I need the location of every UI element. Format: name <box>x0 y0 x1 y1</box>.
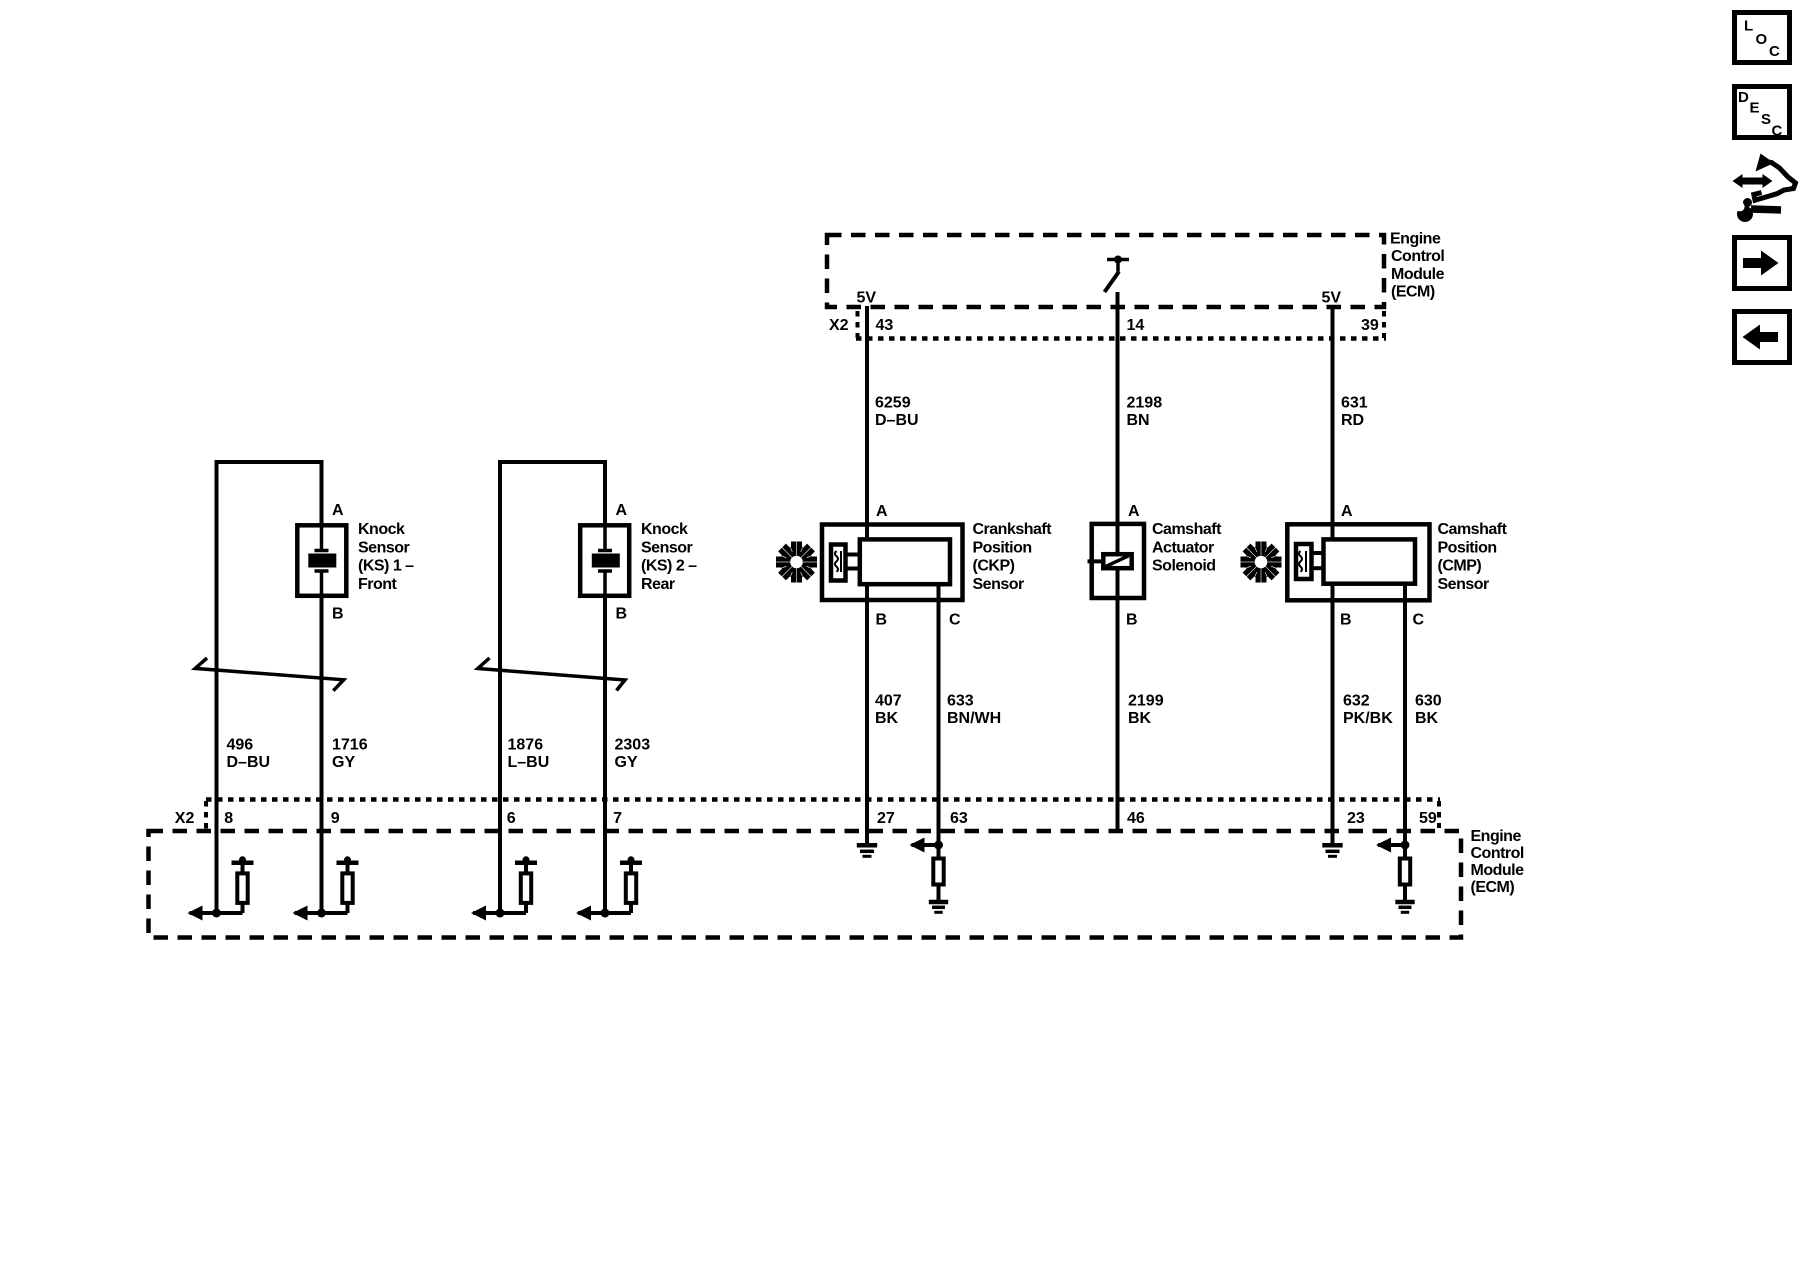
wire A into CKP <box>865 524 869 541</box>
wire 2199 BK <box>1116 568 1120 833</box>
svg-text:A: A <box>1128 503 1140 520</box>
gear symbol CMP <box>1241 542 1282 583</box>
solenoid wire through box <box>1116 523 1120 554</box>
CKP element connector lines <box>846 555 860 569</box>
svg-text:1876L–BU: 1876L–BU <box>508 737 550 772</box>
svg-text:A: A <box>332 502 344 519</box>
wire 630 BK <box>1403 584 1407 845</box>
svg-text:14: 14 <box>1127 317 1145 334</box>
wire 631 RD <box>1331 306 1335 541</box>
resistor-ground network pin 59 <box>1376 838 1415 913</box>
svg-text:C: C <box>1413 612 1425 629</box>
svg-text:B: B <box>876 612 888 629</box>
svg-text:L: L <box>1744 18 1753 35</box>
pullup network pin 9 <box>293 856 359 920</box>
svg-text:5V: 5V <box>857 290 877 307</box>
Engine Control Module (ECM) top dashed box <box>827 235 1384 307</box>
svg-text:D: D <box>1738 89 1749 106</box>
knock sensor KS1 box <box>297 525 346 596</box>
svg-text:E: E <box>1750 100 1760 117</box>
wire loop knock sensor 2 <box>500 462 605 913</box>
CMP sensing element box <box>1296 544 1312 579</box>
wire 633 BN/WH <box>937 584 941 845</box>
svg-text:A: A <box>1341 503 1353 520</box>
nav icon right-arrow box <box>1735 238 1790 289</box>
svg-text:O: O <box>1756 31 1768 48</box>
nav icon wrench-arrows symbol <box>1733 154 1796 223</box>
wire 407 BK <box>865 584 869 844</box>
wire 2198 BN <box>1116 292 1120 554</box>
svg-text:C: C <box>949 612 961 629</box>
svg-text:B: B <box>332 606 344 623</box>
CMP element connector lines <box>1311 553 1325 568</box>
svg-text:C: C <box>1772 123 1783 140</box>
wire 632 PK/BK <box>1331 584 1335 844</box>
crankshaft position sensor outer box <box>822 525 963 601</box>
ground pin 23 <box>1322 845 1342 856</box>
svg-text:630BK: 630BK <box>1415 693 1442 728</box>
svg-text:5V: 5V <box>1322 290 1342 307</box>
ground pin 27 <box>857 845 877 856</box>
svg-text:9: 9 <box>331 810 340 827</box>
knock sensor KS1 element <box>308 523 336 598</box>
CMP inner rectangle <box>1324 539 1416 583</box>
svg-text:39: 39 <box>1361 317 1379 334</box>
wire 6259 D-BU <box>865 306 869 541</box>
resistor-ground network pin 63 <box>910 838 949 913</box>
pullup network pin 6 <box>471 856 537 920</box>
svg-text:CamshaftActuatorSolenoid: CamshaftActuatorSolenoid <box>1152 521 1222 574</box>
svg-text:23: 23 <box>1347 810 1365 827</box>
twisted pair symbol KS1 <box>195 658 344 691</box>
CKP inner rectangle <box>860 539 950 584</box>
knock sensor KS2 box <box>580 525 629 596</box>
svg-text:8: 8 <box>224 810 233 827</box>
switch contact inside ECM <box>1105 256 1130 293</box>
svg-text:7: 7 <box>613 810 622 827</box>
CKP sensing element box <box>831 545 846 581</box>
svg-text:631RD: 631RD <box>1341 395 1368 430</box>
nav icon DESC box <box>1735 87 1790 140</box>
svg-text:43: 43 <box>876 317 894 334</box>
wire 1716 GY <box>320 598 324 913</box>
wire A into CMP <box>1331 524 1335 541</box>
svg-text:6: 6 <box>507 810 516 827</box>
CMP element squiggle <box>1299 551 1306 572</box>
svg-text:407BK: 407BK <box>875 693 902 728</box>
svg-text:X2: X2 <box>175 810 195 827</box>
svg-text:B: B <box>1126 612 1138 629</box>
solenoid element <box>1088 554 1132 568</box>
CKP element squiggle <box>835 551 841 572</box>
pullup network pin 8 <box>188 856 254 920</box>
Engine Control Module (ECM) bottom dashed box <box>149 831 1462 938</box>
svg-text:46: 46 <box>1127 810 1145 827</box>
camshaft position sensor outer box <box>1287 524 1429 600</box>
svg-text:A: A <box>616 502 628 519</box>
twisted pair symbol KS2 <box>478 658 625 691</box>
nav icon left-arrow box <box>1735 312 1790 363</box>
svg-text:27: 27 <box>877 810 895 827</box>
wire 2303 GY <box>603 598 607 913</box>
connector X2 top dotted strip <box>856 311 1386 339</box>
svg-text:59: 59 <box>1419 810 1437 827</box>
svg-text:A: A <box>876 503 888 520</box>
svg-text:63: 63 <box>950 810 968 827</box>
svg-text:S: S <box>1761 111 1771 128</box>
svg-text:X2: X2 <box>829 317 849 334</box>
svg-text:C: C <box>1769 43 1780 60</box>
pullup network pin 7 <box>576 856 642 920</box>
knock sensor KS2 element <box>592 523 620 598</box>
svg-text:B: B <box>1340 612 1352 629</box>
wire loop knock sensor 1 <box>217 462 322 913</box>
connector X2 bottom dotted strip <box>206 800 1440 830</box>
nav icon LOC box <box>1735 13 1790 63</box>
camshaft actuator solenoid box <box>1092 524 1144 598</box>
svg-text:B: B <box>616 606 628 623</box>
gear symbol CKP <box>776 542 817 583</box>
